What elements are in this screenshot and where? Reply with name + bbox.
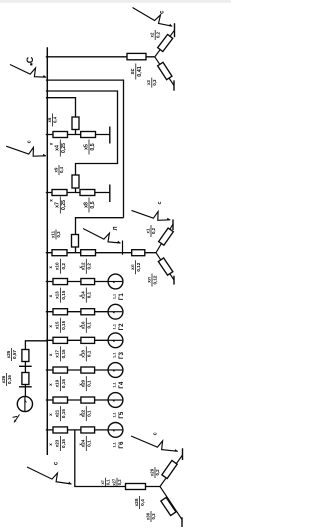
svg-text:0,5: 0,5 — [90, 143, 96, 150]
svg-text:Г5: Г5 — [118, 411, 125, 419]
svg-text:x8: x8 — [83, 202, 89, 208]
svg-text:x20: x20 — [81, 379, 86, 387]
svg-text:x16: x16 — [81, 321, 86, 329]
svg-text:с: с — [152, 432, 158, 435]
svg-text:Г6: Г6 — [118, 441, 125, 449]
svg-text:0,3: 0,3 — [151, 513, 156, 520]
svg-text:0,1: 0,1 — [87, 322, 92, 329]
svg-text:x21: x21 — [55, 409, 60, 417]
svg-text:x13: x13 — [55, 291, 60, 299]
svg-text:0,3: 0,3 — [152, 79, 157, 86]
svg-text:x19: x19 — [55, 379, 60, 387]
svg-text:x3: x3 — [146, 80, 151, 85]
svg-text:x: x — [48, 383, 53, 386]
svg-text:x2: x2 — [150, 32, 155, 37]
svg-text:x23: x23 — [55, 439, 60, 447]
svg-text:0,2: 0,2 — [155, 469, 160, 476]
svg-text:x: x — [49, 199, 54, 202]
svg-text:0,25: 0,25 — [61, 143, 67, 153]
svg-text:1,1: 1,1 — [113, 442, 117, 447]
svg-text:x17: x17 — [55, 350, 60, 358]
svg-text:0,41: 0,41 — [137, 66, 143, 77]
svg-text:0,4: 0,4 — [59, 166, 64, 173]
svg-text:Г4: Г4 — [118, 381, 125, 389]
svg-text:0,15: 0,15 — [61, 349, 66, 358]
svg-text:0,25: 0,25 — [61, 200, 67, 210]
svg-text:x18: x18 — [81, 350, 86, 358]
svg-text:x12: x12 — [81, 262, 86, 270]
svg-text:Л: Л — [113, 226, 119, 230]
svg-text:x5: x5 — [83, 144, 89, 150]
svg-text:x10: x10 — [55, 262, 60, 270]
svg-text:с: с — [157, 201, 163, 204]
svg-text:1,1: 1,1 — [113, 294, 117, 299]
svg-text:0,2: 0,2 — [61, 263, 66, 270]
svg-text:x27: x27 — [111, 478, 116, 486]
svg-text:0,15: 0,15 — [61, 320, 66, 329]
svg-text:xл: xл — [146, 277, 151, 283]
svg-text:0,16: 0,16 — [7, 375, 12, 384]
svg-text:с: с — [26, 140, 32, 143]
svg-text:1,1: 1,1 — [113, 412, 117, 417]
svg-text:0,4: 0,4 — [140, 499, 146, 506]
svg-text:x28: x28 — [134, 498, 140, 506]
svg-text:0,4: 0,4 — [53, 116, 58, 123]
svg-text:0,57: 0,57 — [12, 350, 17, 359]
svg-text:1,1: 1,1 — [113, 324, 117, 329]
svg-text:0,2: 0,2 — [155, 31, 160, 38]
svg-text:0,15: 0,15 — [61, 439, 66, 448]
svg-text:0,12: 0,12 — [152, 275, 157, 284]
svg-text:x: x — [48, 443, 53, 446]
svg-text:0,1: 0,1 — [87, 380, 92, 387]
svg-text:0,2: 0,2 — [151, 227, 156, 234]
svg-text:x: x — [48, 266, 53, 269]
svg-text:xл: xл — [130, 264, 135, 270]
svg-text:0,2: 0,2 — [87, 263, 92, 270]
svg-text:xc: xc — [130, 69, 136, 75]
svg-text:0,1: 0,1 — [87, 350, 92, 357]
svg-text:x26: x26 — [1, 375, 6, 383]
svg-text:x30: x30 — [145, 512, 150, 520]
svg-text:x24: x24 — [81, 439, 86, 447]
svg-text:С: С — [25, 56, 35, 63]
svg-text:x14: x14 — [81, 291, 86, 299]
svg-text:x1: x1 — [145, 228, 150, 233]
svg-text:0,15: 0,15 — [61, 379, 66, 388]
svg-text:1,1: 1,1 — [113, 353, 117, 358]
svg-text:x22: x22 — [81, 409, 86, 417]
svg-text:Г2: Г2 — [118, 323, 125, 331]
svg-text:0,1: 0,1 — [87, 410, 92, 417]
svg-text:Г1: Г1 — [118, 293, 125, 301]
svg-text:0,1: 0,1 — [87, 291, 92, 298]
svg-text:x29: x29 — [149, 468, 154, 476]
svg-text:Г3: Г3 — [118, 351, 125, 359]
svg-text:0,5: 0,5 — [90, 201, 96, 208]
svg-text:1,1: 1,1 — [113, 382, 117, 387]
svg-text:0,12: 0,12 — [136, 262, 141, 271]
svg-text:x15: x15 — [55, 321, 60, 329]
svg-text:xт: xт — [100, 480, 105, 484]
svg-text:0,3: 0,3 — [56, 231, 61, 238]
svg-text:x: x — [49, 142, 54, 145]
svg-text:x7: x7 — [55, 202, 61, 208]
svg-text:x11: x11 — [50, 230, 55, 238]
svg-text:x: x — [48, 353, 53, 356]
svg-text:0,1: 0,1 — [87, 440, 92, 447]
svg-text:x: x — [48, 325, 53, 328]
svg-text:0,15: 0,15 — [61, 409, 66, 418]
svg-text:x4: x4 — [55, 145, 61, 151]
svg-text:x: x — [48, 294, 53, 297]
svg-text:0,1: 0,1 — [106, 479, 111, 485]
svg-text:x25: x25 — [6, 350, 11, 358]
svg-text:x9: x9 — [53, 167, 58, 172]
svg-text:x: x — [48, 413, 53, 416]
svg-text:x6: x6 — [47, 117, 52, 122]
svg-text:0,15: 0,15 — [61, 290, 66, 299]
svg-text:0,2: 0,2 — [117, 479, 122, 485]
